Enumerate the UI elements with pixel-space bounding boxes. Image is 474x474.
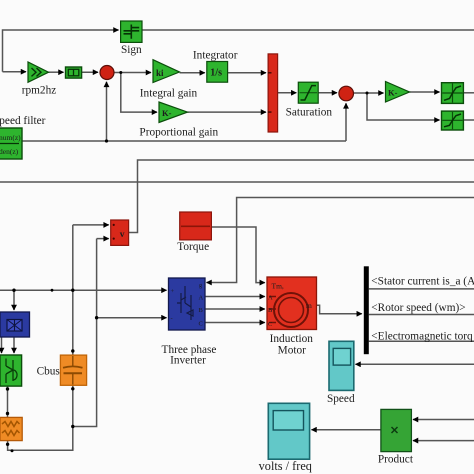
svg-text:K-: K- (162, 108, 172, 118)
svg-text:Torque: Torque (177, 241, 209, 253)
svg-text:g: g (199, 283, 202, 289)
svg-text:A: A (268, 295, 273, 302)
svg-text:K-: K- (388, 88, 398, 98)
svg-text:-: - (171, 316, 173, 323)
svg-text:Induction: Induction (270, 333, 314, 345)
svg-text:den(z): den(z) (0, 147, 19, 156)
svg-text:1/s: 1/s (210, 68, 222, 79)
svg-text:Product: Product (378, 454, 414, 466)
svg-text:B: B (199, 307, 204, 314)
svg-text:ki: ki (156, 68, 164, 78)
svg-text:Sign: Sign (121, 44, 142, 56)
svg-text:Tm,: Tm, (272, 282, 284, 291)
svg-text:A: A (199, 295, 204, 302)
svg-text:Cbus: Cbus (37, 366, 60, 378)
svg-text:C: C (199, 321, 203, 328)
svg-text:C: C (268, 321, 272, 328)
svg-text:Inverter: Inverter (170, 354, 206, 366)
svg-text:<Rotor speed (wm)>: <Rotor speed (wm)> (371, 302, 465, 314)
svg-text:B: B (268, 307, 273, 314)
svg-text:v: v (120, 230, 125, 240)
svg-text:Integrator: Integrator (193, 50, 238, 62)
svg-text:+: + (171, 288, 175, 295)
svg-text:Speed: Speed (327, 393, 355, 405)
svg-text:Speed filter: Speed filter (0, 115, 46, 127)
svg-text:Proportional gain: Proportional gain (139, 127, 218, 139)
svg-text:rpm2hz: rpm2hz (22, 84, 57, 96)
svg-text:m: m (306, 301, 312, 310)
svg-text:Motor: Motor (278, 344, 306, 356)
svg-text:<Stator current is_a (A: <Stator current is_a (A (371, 275, 474, 287)
svg-text:Saturation: Saturation (286, 107, 333, 119)
svg-text:<Electromagnetic torq: <Electromagnetic torq (371, 330, 473, 342)
svg-text:num(z): num(z) (0, 133, 21, 142)
svg-text:Integral gain: Integral gain (140, 88, 198, 100)
svg-text:volts / freq: volts / freq (259, 459, 312, 473)
